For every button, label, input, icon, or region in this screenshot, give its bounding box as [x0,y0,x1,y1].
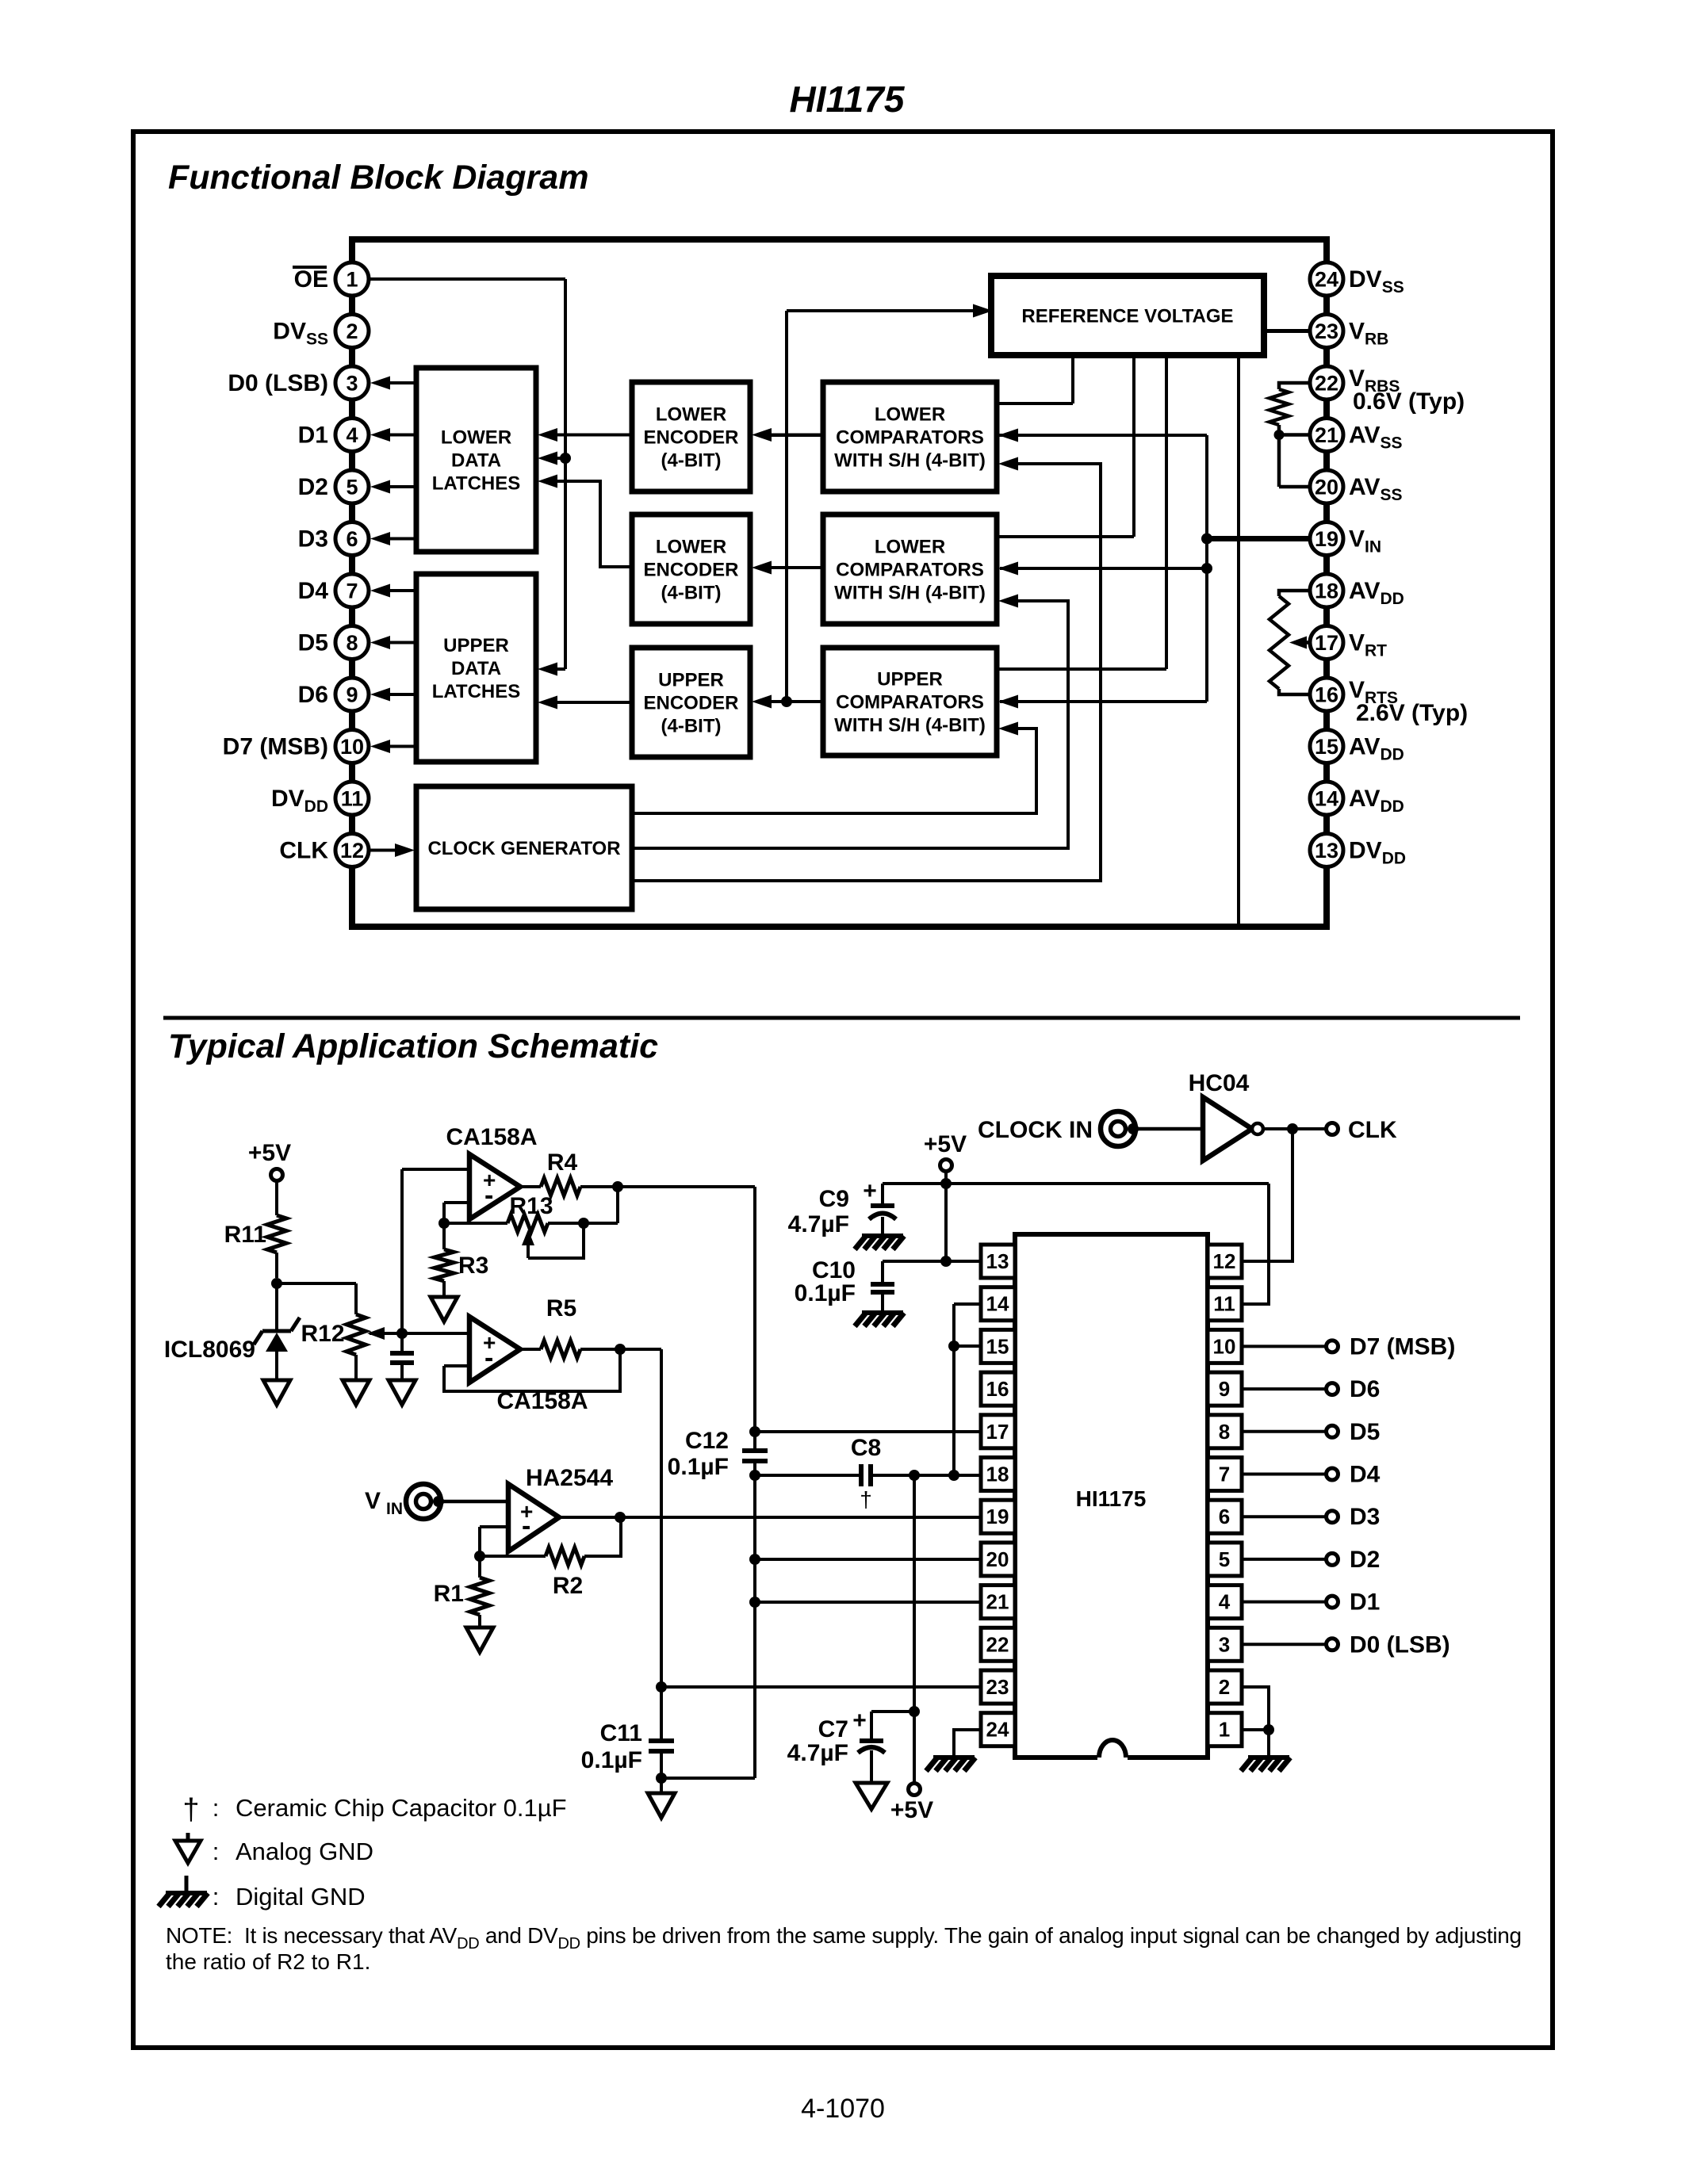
svg-text:Digital GND: Digital GND [236,1883,366,1911]
svg-text:-: - [484,1180,493,1211]
svg-text:R3: R3 [458,1253,488,1279]
svg-text:WITH S/H (4-BIT): WITH S/H (4-BIT) [834,583,986,604]
svg-text:2.6V (Typ): 2.6V (Typ) [1356,700,1468,726]
svg-text:22: 22 [986,1632,1009,1656]
svg-text:21: 21 [1315,423,1338,447]
svg-text:11: 11 [1213,1292,1235,1316]
svg-text:HI1175: HI1175 [790,78,906,120]
svg-text:ENCODER: ENCODER [643,693,738,714]
svg-text:4: 4 [346,423,358,447]
svg-text:D4: D4 [298,578,329,604]
svg-text:18: 18 [986,1463,1009,1486]
svg-text:2: 2 [1219,1675,1230,1699]
svg-text:0.1µF: 0.1µF [668,1454,729,1480]
svg-text:R12: R12 [301,1321,344,1347]
svg-text::: : [213,1883,220,1911]
svg-text:DATA: DATA [451,450,501,472]
svg-text:+5V: +5V [248,1140,291,1166]
svg-text:20: 20 [1315,476,1338,499]
svg-text:6: 6 [346,527,358,551]
svg-text:WITH S/H (4-BIT): WITH S/H (4-BIT) [834,450,986,472]
svg-text:D2: D2 [1350,1547,1380,1573]
svg-text:21: 21 [986,1590,1009,1614]
svg-text:REFERENCE VOLTAGE: REFERENCE VOLTAGE [1021,306,1233,327]
svg-text:5: 5 [1219,1547,1230,1571]
svg-text:18: 18 [1315,579,1338,603]
svg-text:1: 1 [346,268,358,292]
svg-text:7: 7 [346,579,358,603]
svg-text:3: 3 [1219,1632,1230,1656]
svg-text:0.1µF: 0.1µF [795,1280,856,1306]
svg-text:UPPER: UPPER [877,669,943,690]
svg-text:R1: R1 [434,1581,464,1607]
svg-text:D3: D3 [1350,1504,1380,1530]
svg-text:22: 22 [1315,372,1338,396]
svg-text:ENCODER: ENCODER [643,560,738,581]
svg-text:C8: C8 [851,1435,881,1461]
svg-text:14: 14 [1315,787,1338,811]
svg-text:17: 17 [986,1420,1009,1444]
svg-text:+5V: +5V [924,1131,967,1157]
svg-text:C12: C12 [685,1428,729,1454]
svg-text:COMPARATORS: COMPARATORS [836,427,984,449]
svg-text:+: + [863,1178,877,1204]
svg-text:(4-BIT): (4-BIT) [661,450,722,472]
svg-text:LATCHES: LATCHES [432,681,521,702]
svg-text:the ratio of R2 to R1.: the ratio of R2 to R1. [166,1949,370,1974]
svg-text:LOWER: LOWER [656,537,726,558]
svg-text:D7 (MSB): D7 (MSB) [1350,1333,1455,1360]
svg-text:17: 17 [1315,631,1338,655]
svg-text:23: 23 [1315,319,1338,343]
svg-text:4.7µF: 4.7µF [787,1740,848,1766]
svg-text:WITH S/H (4-BIT): WITH S/H (4-BIT) [834,715,986,736]
svg-text:D0 (LSB): D0 (LSB) [228,370,328,396]
svg-text:0.1µF: 0.1µF [581,1747,642,1773]
svg-text:20: 20 [986,1547,1009,1571]
svg-text:19: 19 [986,1505,1009,1528]
svg-text:LOWER: LOWER [875,404,945,426]
svg-text:Ceramic Chip Capacitor 0.1µF: Ceramic Chip Capacitor 0.1µF [236,1794,567,1822]
svg-text:D6: D6 [1350,1376,1380,1402]
svg-text:C11: C11 [600,1720,642,1746]
svg-text:OE: OE [294,266,328,293]
svg-text:-: - [522,1511,530,1541]
svg-text:COMPARATORS: COMPARATORS [836,560,984,581]
svg-text:†: † [860,1487,872,1512]
svg-text:HC04: HC04 [1189,1070,1250,1096]
svg-text:13: 13 [986,1249,1009,1273]
svg-text:†: † [182,1793,199,1826]
svg-text:HI1175: HI1175 [1076,1486,1147,1511]
svg-text:7: 7 [1219,1463,1230,1486]
svg-text:Typical Application Schematic: Typical Application Schematic [168,1027,658,1065]
svg-text:12: 12 [340,839,364,863]
svg-text:23: 23 [986,1675,1009,1699]
svg-text:D6: D6 [298,682,328,708]
svg-text:-: - [484,1343,493,1373]
svg-text:14: 14 [986,1292,1009,1316]
svg-text:4.7µF: 4.7µF [788,1211,849,1237]
svg-text:V: V [365,1488,381,1514]
svg-text:CLK: CLK [279,838,328,864]
svg-text:CLOCK GENERATOR: CLOCK GENERATOR [427,838,620,859]
svg-text:24: 24 [986,1718,1009,1742]
svg-text:UPPER: UPPER [658,670,724,691]
svg-text:ICL8069: ICL8069 [164,1337,255,1363]
svg-text:8: 8 [1219,1420,1230,1444]
svg-text:Analog GND: Analog GND [236,1838,373,1865]
svg-text:C7: C7 [818,1716,848,1742]
svg-text:DATA: DATA [451,658,501,679]
svg-text:16: 16 [1315,683,1338,707]
svg-text:CA158A: CA158A [446,1124,537,1150]
svg-text:8: 8 [346,631,358,655]
svg-text:D7 (MSB): D7 (MSB) [223,734,328,760]
svg-text:R5: R5 [546,1295,576,1321]
svg-text:ENCODER: ENCODER [643,427,738,449]
svg-text:R13: R13 [509,1193,553,1219]
svg-text:13: 13 [1315,839,1338,863]
svg-text::: : [213,1794,220,1822]
svg-text:D4: D4 [1350,1462,1381,1488]
svg-text:10: 10 [1213,1334,1236,1358]
svg-text:R11: R11 [224,1222,266,1248]
svg-text:IN: IN [386,1500,403,1518]
svg-text:5: 5 [346,476,358,499]
svg-text:1: 1 [1219,1718,1230,1742]
svg-text:24: 24 [1315,268,1338,292]
svg-text::: : [213,1838,220,1865]
svg-text:LATCHES: LATCHES [432,473,521,495]
svg-text:(4-BIT): (4-BIT) [661,716,722,737]
svg-text:UPPER: UPPER [443,635,509,656]
svg-text:9: 9 [346,683,358,707]
svg-text:+: + [852,1708,867,1734]
svg-text:3: 3 [346,372,358,396]
svg-text:15: 15 [1315,735,1338,759]
svg-text:R2: R2 [553,1573,583,1599]
svg-text:D5: D5 [1350,1419,1380,1445]
svg-text:LOWER: LOWER [441,427,511,449]
svg-text:2: 2 [346,319,358,343]
svg-text:COMPARATORS: COMPARATORS [836,692,984,713]
svg-text:+5V: +5V [890,1797,933,1823]
svg-text:(4-BIT): (4-BIT) [661,583,722,604]
svg-text:9: 9 [1219,1377,1230,1401]
svg-text:D0 (LSB): D0 (LSB) [1350,1631,1450,1658]
svg-text:19: 19 [1315,527,1338,551]
svg-text:Functional Block Diagram: Functional Block Diagram [168,159,588,197]
svg-text:CLOCK IN: CLOCK IN [978,1117,1093,1143]
svg-text:10: 10 [340,735,364,759]
svg-text:12: 12 [1213,1249,1236,1273]
svg-text:LOWER: LOWER [875,537,945,558]
svg-text:CA158A: CA158A [496,1388,588,1414]
svg-text:0.6V (Typ): 0.6V (Typ) [1353,388,1465,415]
svg-text:16: 16 [986,1377,1009,1401]
svg-text:6: 6 [1219,1505,1230,1528]
svg-text:D3: D3 [298,526,328,553]
svg-text:D5: D5 [298,630,328,656]
svg-text:C9: C9 [819,1186,849,1212]
svg-text:HA2544: HA2544 [526,1465,613,1491]
svg-text:CLK: CLK [1348,1117,1397,1143]
svg-text:LOWER: LOWER [656,404,726,426]
svg-text:D2: D2 [298,474,328,500]
svg-text:4: 4 [1219,1590,1231,1614]
svg-text:4-1070: 4-1070 [801,2094,885,2124]
svg-text:11: 11 [341,787,364,811]
svg-text:D1: D1 [1350,1589,1380,1616]
svg-text:R4: R4 [547,1149,578,1176]
svg-text:D1: D1 [298,423,328,449]
svg-text:15: 15 [986,1334,1009,1358]
